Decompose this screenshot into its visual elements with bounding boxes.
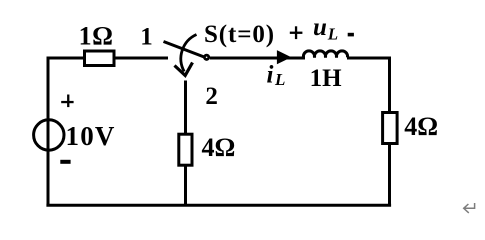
svg-text:1: 1 — [140, 24, 153, 51]
wire: bottom horizontal — [46, 204, 391, 207]
svg-text:4Ω: 4Ω — [202, 133, 236, 162]
svg-text:2: 2 — [205, 83, 218, 110]
svg-text:L: L — [274, 70, 285, 89]
wire: inductor to right corner — [347, 57, 391, 60]
resistor R1 1ohm box — [85, 51, 115, 66]
wire: right vertical bottom — [388, 144, 391, 207]
paragraph return mark — [464, 203, 475, 213]
label - of source — [60, 160, 70, 164]
label + of uL — [290, 26, 303, 39]
label - of uL — [348, 33, 354, 37]
wire: middle branch vertical bottom — [184, 165, 187, 206]
svg-text:1H: 1H — [310, 65, 343, 92]
wire: middle branch vertical top — [184, 81, 187, 136]
svg-text:1Ω: 1Ω — [79, 22, 114, 51]
svg-text:S(t=0): S(t=0) — [204, 21, 275, 48]
svg-text:u: u — [313, 14, 327, 41]
svg-text:i: i — [267, 62, 274, 89]
wire: top-left segment (source to R1) — [47, 57, 86, 60]
svg-text:L: L — [327, 25, 338, 44]
switch pivot node circle — [204, 55, 208, 59]
switch arrowhead — [175, 63, 193, 76]
resistor R2 4ohm box middle — [179, 134, 192, 165]
switch throw arc — [181, 35, 197, 72]
voltage source circle — [34, 120, 64, 150]
switch S blade — [164, 42, 206, 58]
svg-text:4Ω: 4Ω — [404, 112, 438, 141]
inductor L 1H coil — [303, 51, 347, 58]
current arrow iL — [277, 51, 290, 63]
svg-text:10V: 10V — [66, 121, 116, 151]
wire: right vertical top — [388, 57, 391, 114]
resistor R3 4ohm box right — [383, 113, 398, 144]
wire: pivot to inductor — [210, 57, 305, 60]
wire: R1 to switch contact 1 — [114, 57, 168, 60]
label + of source — [61, 95, 73, 108]
wire: left vertical branch — [47, 58, 50, 207]
